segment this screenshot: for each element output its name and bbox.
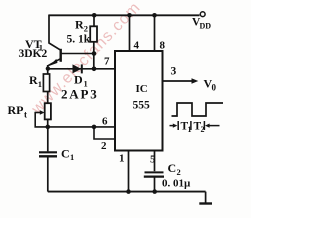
svg-text:R: R (29, 73, 38, 87)
node rail R2 (92, 13, 97, 18)
node rail C2 (152, 189, 157, 194)
wire C1 bottom lead (47, 157, 49, 192)
potentiometer RP1 body (45, 103, 51, 119)
svg-text:0. 01µ: 0. 01µ (162, 178, 191, 190)
wire wiper return (35, 112, 47, 127)
svg-text:8: 8 (160, 40, 166, 52)
waveform square wave (172, 103, 224, 116)
diode D1 (73, 64, 82, 73)
svg-text:7: 7 (104, 56, 110, 68)
svg-text:t: t (24, 110, 27, 120)
svg-text:555: 555 (133, 100, 151, 112)
wire R2 bottom lead (93, 42, 95, 69)
svg-text:C: C (61, 147, 70, 161)
svg-text:5: 5 (150, 154, 156, 166)
wire top rail VDD (49, 14, 200, 16)
wire collector vertical (49, 15, 61, 51)
wire pin 2 branch (94, 127, 115, 139)
transistor VT1 emitter with arrow (48, 59, 61, 66)
svg-text:D: D (74, 73, 83, 87)
svg-text:C: C (168, 161, 177, 175)
wire diode line pin 7 (48, 68, 115, 70)
svg-text:5. 1k: 5. 1k (67, 34, 91, 46)
node emitter/diode junction (46, 66, 50, 70)
wire bottom ground rail (48, 191, 206, 193)
svg-text:3DK2: 3DK2 (19, 48, 48, 60)
wire emitter to R1 (47, 65, 49, 75)
watermark www.elecfans.com (28, 0, 144, 118)
svg-text:4: 4 (134, 40, 140, 52)
svg-text:IC: IC (136, 83, 148, 95)
wire RP1 bottom (47, 119, 49, 127)
waveform T1 T2 annotation (170, 125, 174, 127)
capacitor C1 (39, 151, 57, 153)
wire R1 to RP1 (47, 92, 49, 104)
node rail pin4 (127, 13, 132, 18)
svg-text:3: 3 (171, 66, 177, 78)
wire C1 top lead (47, 127, 49, 151)
svg-text:1: 1 (38, 79, 42, 89)
transistor VT1 base bar (60, 49, 62, 62)
svg-text:2: 2 (84, 24, 88, 34)
svg-text:2AP3: 2AP3 (61, 87, 99, 102)
svg-text:2: 2 (101, 140, 107, 152)
wire R2 top lead (93, 15, 95, 27)
svg-text:6: 6 (102, 116, 108, 128)
ground symbol (205, 192, 207, 204)
node pin2 branch (92, 125, 97, 130)
power terminal VDD circle (200, 12, 205, 17)
svg-text:0: 0 (212, 83, 217, 93)
node rail pin1 (126, 189, 131, 194)
wire pin 4 stub (129, 15, 131, 51)
potentiometer RP1 wiper arrow (35, 112, 41, 114)
node base junction (92, 51, 97, 56)
svg-text:1: 1 (70, 152, 74, 162)
wire C2 bottom lead (154, 178, 156, 192)
resistor R1 (43, 74, 49, 92)
svg-text:R: R (75, 18, 84, 32)
wire pin 1 stub (128, 151, 130, 192)
op IC 555 box (115, 51, 163, 151)
node rail pin8 (152, 13, 157, 18)
wire pin 6 line (48, 126, 115, 128)
wire pin 8 stub (154, 15, 156, 51)
svg-text:2: 2 (177, 167, 181, 177)
capacitor C2 (145, 171, 164, 173)
wire pin 3 output arrow (163, 80, 194, 82)
svg-text:RP: RP (8, 103, 24, 117)
wire base to R2 node (61, 53, 94, 55)
node pins 6/2 C1 junction (46, 125, 51, 130)
resistor R2 (90, 26, 97, 42)
wire pin 5 stub (154, 151, 156, 172)
node diode/pin7 junction (92, 67, 97, 72)
svg-text:1: 1 (119, 153, 125, 165)
svg-text:DD: DD (200, 22, 212, 31)
